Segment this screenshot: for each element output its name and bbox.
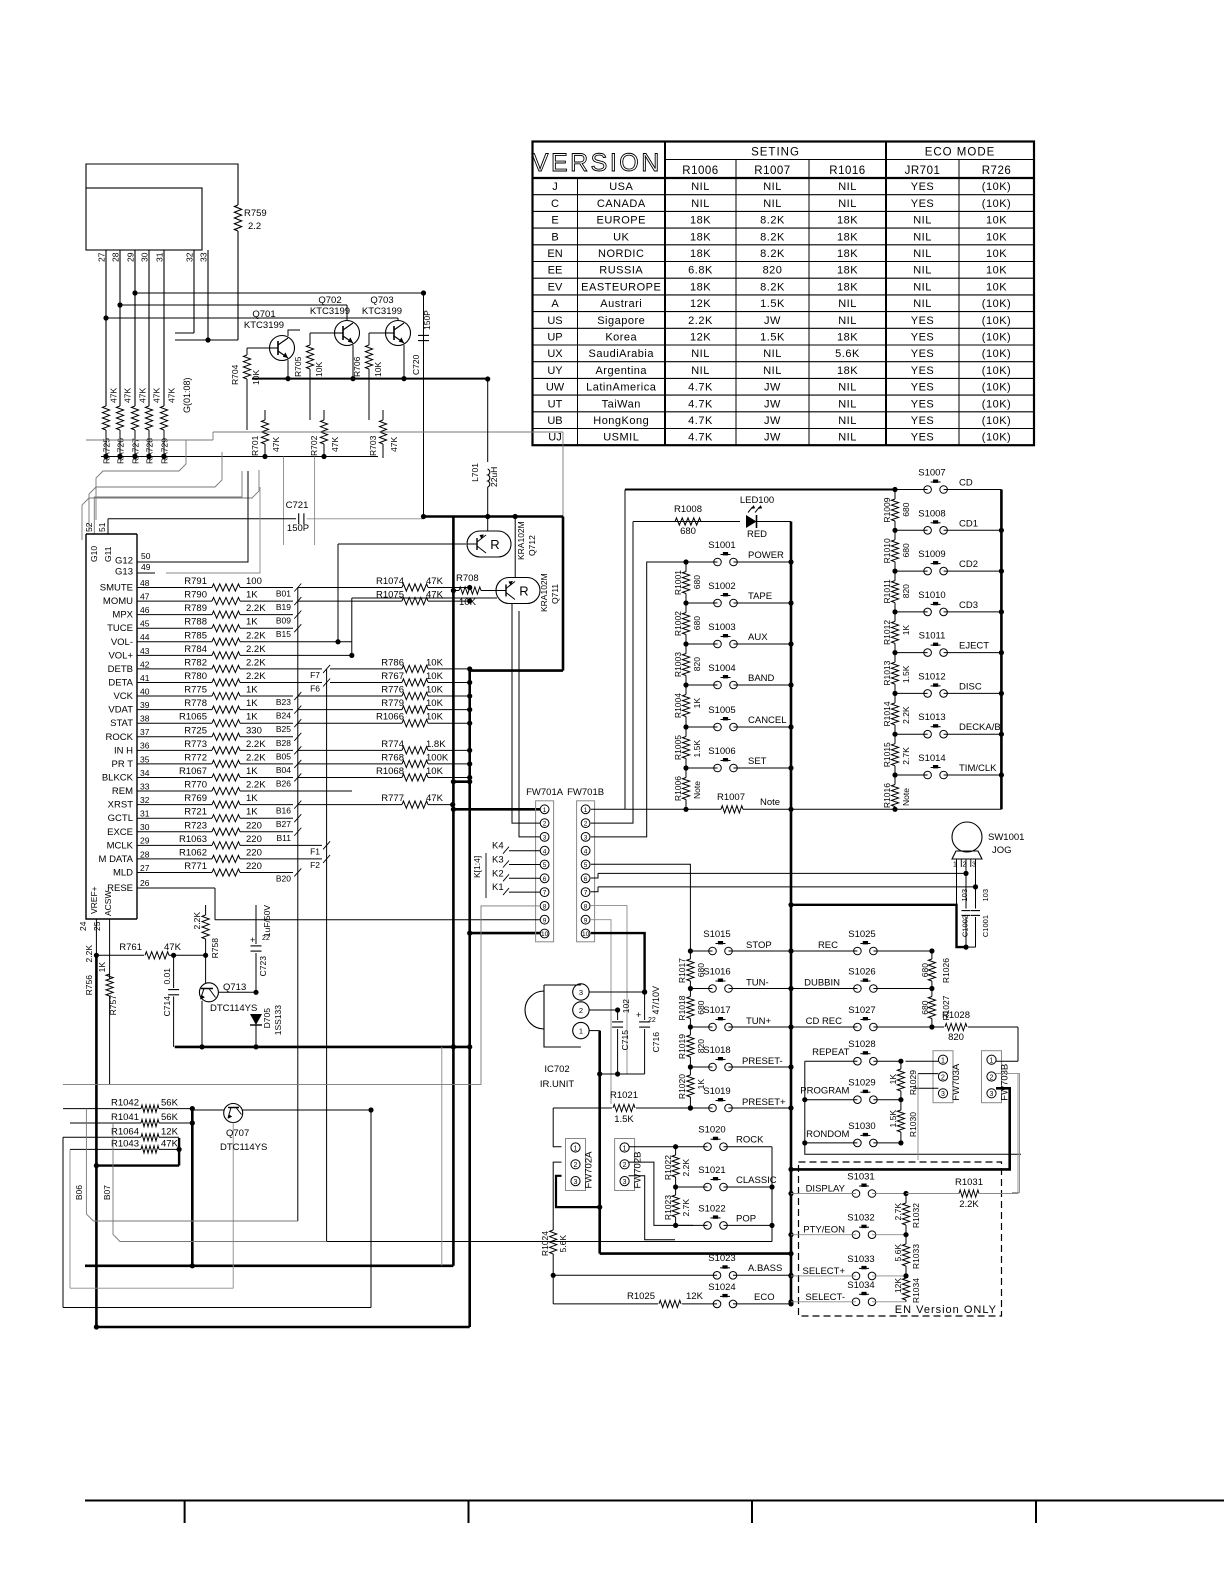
svg-text:1uF/50V: 1uF/50V: [262, 905, 272, 937]
svg-text:EUROPE: EUROPE: [597, 215, 646, 227]
svg-text:R1066: R1066: [376, 712, 404, 723]
svg-text:S1025: S1025: [848, 929, 875, 940]
svg-text:RA729: RA729: [160, 438, 170, 464]
svg-text:C721: C721: [286, 500, 309, 511]
svg-text:R708: R708: [456, 573, 479, 584]
svg-text:R759: R759: [244, 208, 267, 219]
svg-text:5: 5: [584, 862, 588, 869]
svg-text:12K: 12K: [690, 332, 711, 344]
svg-text:R1025: R1025: [627, 1291, 655, 1302]
svg-text:37: 37: [140, 727, 150, 737]
svg-text:NIL: NIL: [691, 181, 710, 193]
svg-text:36: 36: [140, 741, 150, 751]
svg-text:R1074: R1074: [376, 576, 404, 587]
svg-text:27: 27: [140, 863, 150, 873]
svg-text:30: 30: [140, 252, 150, 262]
svg-text:32: 32: [185, 252, 195, 262]
svg-text:7: 7: [584, 890, 588, 897]
svg-text:1.5K: 1.5K: [901, 665, 911, 683]
svg-text:SELECT+: SELECT+: [802, 1266, 845, 1277]
svg-text:820: 820: [696, 1039, 706, 1053]
svg-text:R725: R725: [184, 725, 207, 736]
svg-text:47K: 47K: [271, 437, 281, 452]
svg-text:R1013: R1013: [882, 660, 892, 685]
svg-text:B24: B24: [276, 711, 291, 721]
svg-text:5.6K: 5.6K: [835, 348, 860, 360]
svg-text:NIL: NIL: [691, 365, 710, 377]
svg-text:R1016: R1016: [882, 783, 892, 808]
svg-text:(10K): (10K): [982, 181, 1011, 193]
svg-text:48: 48: [140, 578, 150, 588]
svg-text:R789: R789: [184, 603, 207, 614]
svg-text:KTC3199: KTC3199: [362, 306, 402, 317]
svg-text:EN: EN: [547, 248, 562, 260]
svg-text:DUBBIN: DUBBIN: [804, 978, 840, 989]
svg-text:CD2: CD2: [959, 559, 978, 570]
svg-text:R774: R774: [381, 739, 404, 750]
svg-text:680: 680: [680, 526, 696, 537]
svg-text:2.2K: 2.2K: [246, 603, 266, 614]
svg-text:F7: F7: [310, 670, 320, 680]
svg-text:IR.UNIT: IR.UNIT: [540, 1079, 575, 1090]
svg-text:CD REC: CD REC: [806, 1016, 843, 1027]
svg-text:BAND: BAND: [748, 673, 775, 684]
svg-text:TAPE: TAPE: [748, 591, 772, 602]
svg-text:S1024: S1024: [708, 1282, 735, 1293]
svg-text:51: 51: [97, 522, 107, 532]
svg-text:28: 28: [140, 849, 150, 859]
svg-text:C720: C720: [411, 354, 421, 375]
svg-text:0.01: 0.01: [162, 968, 172, 985]
svg-text:YES: YES: [911, 365, 935, 377]
svg-text:YES: YES: [911, 332, 935, 344]
svg-text:SETING: SETING: [751, 147, 800, 159]
svg-text:B06: B06: [74, 1185, 84, 1200]
svg-text:B23: B23: [276, 697, 291, 707]
svg-text:NIL: NIL: [913, 265, 932, 277]
svg-text:C: C: [551, 198, 559, 210]
svg-text:NIL: NIL: [913, 231, 932, 243]
svg-text:47K: 47K: [167, 388, 177, 403]
svg-text:CANADA: CANADA: [597, 198, 646, 210]
svg-text:R791: R791: [184, 576, 207, 587]
svg-text:R1033: R1033: [911, 1244, 921, 1269]
svg-text:S1032: S1032: [847, 1213, 874, 1224]
svg-text:RESE: RESE: [107, 883, 133, 894]
svg-text:S1008: S1008: [918, 508, 945, 519]
svg-text:ACSW: ACSW: [103, 891, 113, 917]
svg-text:R1001: R1001: [673, 570, 683, 595]
svg-text:680: 680: [920, 963, 930, 977]
svg-text:1.5K: 1.5K: [760, 332, 785, 344]
svg-text:RA727: RA727: [131, 438, 141, 464]
svg-text:RONDOM: RONDOM: [806, 1129, 849, 1140]
svg-text:820: 820: [692, 657, 702, 671]
svg-text:FW703A: FW703A: [951, 1063, 962, 1101]
svg-text:NIL: NIL: [838, 181, 857, 193]
svg-text:100: 100: [246, 576, 262, 587]
svg-text:IN H: IN H: [114, 745, 133, 756]
svg-text:3: 3: [584, 835, 588, 842]
svg-text:10K: 10K: [986, 231, 1007, 243]
svg-text:(10K): (10K): [982, 315, 1011, 327]
svg-text:(10K): (10K): [982, 298, 1011, 310]
svg-text:R1007: R1007: [717, 792, 745, 803]
svg-text:S1022: S1022: [698, 1203, 725, 1214]
svg-text:R776: R776: [381, 685, 404, 696]
svg-text:R1007: R1007: [754, 165, 790, 177]
svg-text:RUSSIA: RUSSIA: [599, 265, 643, 277]
svg-text:R1028: R1028: [942, 1010, 970, 1021]
svg-text:33: 33: [140, 781, 150, 791]
svg-text:2: 2: [543, 821, 547, 828]
svg-text:2.7K: 2.7K: [901, 747, 911, 765]
svg-text:680: 680: [901, 543, 911, 557]
svg-text:1: 1: [574, 1145, 578, 1152]
svg-text:102: 102: [621, 999, 631, 1013]
svg-text:E: E: [551, 215, 558, 227]
svg-text:YES: YES: [911, 315, 935, 327]
svg-text:1: 1: [584, 807, 588, 814]
svg-text:18K: 18K: [837, 215, 858, 227]
svg-text:2.2K: 2.2K: [688, 315, 713, 327]
svg-text:R788: R788: [184, 617, 207, 628]
svg-text:S1005: S1005: [708, 705, 735, 716]
svg-text:B: B: [551, 231, 558, 243]
svg-text:BLKCK: BLKCK: [102, 772, 134, 783]
svg-text:Note: Note: [692, 781, 702, 799]
svg-text:41: 41: [140, 673, 150, 683]
svg-text:56K: 56K: [161, 1098, 179, 1109]
svg-text:40: 40: [140, 686, 150, 696]
svg-text:47K: 47K: [123, 388, 133, 403]
svg-text:8.2K: 8.2K: [760, 281, 785, 293]
svg-text:10K: 10K: [373, 362, 383, 377]
svg-text:10: 10: [541, 931, 549, 938]
svg-text:YES: YES: [911, 415, 935, 427]
svg-text:S1034: S1034: [847, 1280, 874, 1291]
svg-text:NIL: NIL: [838, 198, 857, 210]
svg-text:44: 44: [140, 632, 150, 642]
svg-text:1: 1: [990, 1058, 994, 1065]
svg-text:42: 42: [140, 659, 150, 669]
svg-text:5: 5: [543, 862, 547, 869]
svg-text:Q711: Q711: [550, 584, 560, 604]
svg-text:G13: G13: [115, 567, 133, 578]
svg-text:S1021: S1021: [698, 1165, 725, 1176]
svg-text:56K: 56K: [161, 1112, 179, 1123]
svg-text:R1002: R1002: [673, 611, 683, 636]
svg-text:18K: 18K: [837, 332, 858, 344]
svg-text:Note: Note: [901, 788, 911, 806]
svg-text:R1042: R1042: [111, 1098, 139, 1109]
svg-text:F6: F6: [310, 683, 320, 693]
svg-text:ROCK: ROCK: [106, 732, 134, 743]
svg-text:Note: Note: [760, 797, 780, 808]
svg-text:R782: R782: [184, 657, 207, 668]
svg-text:F2: F2: [310, 860, 320, 870]
svg-text:R786: R786: [381, 657, 404, 668]
svg-text:MPX: MPX: [112, 610, 133, 621]
svg-text:150P: 150P: [287, 523, 309, 534]
svg-text:EN Version ONLY: EN Version ONLY: [895, 1304, 997, 1316]
svg-text:UK: UK: [613, 231, 629, 243]
svg-text:POWER: POWER: [748, 550, 784, 561]
svg-text:R723: R723: [184, 820, 207, 831]
svg-text:3: 3: [543, 835, 547, 842]
svg-text:SaudiArabia: SaudiArabia: [589, 348, 655, 360]
svg-text:47K: 47K: [109, 388, 119, 403]
svg-text:1SS133: 1SS133: [273, 1005, 283, 1036]
svg-text:CANCEL: CANCEL: [748, 715, 787, 726]
svg-text:A.BASS: A.BASS: [748, 1263, 782, 1274]
svg-text:R704: R704: [230, 364, 240, 385]
svg-text:47K: 47K: [164, 942, 182, 953]
svg-text:(10K): (10K): [982, 382, 1011, 394]
svg-text:10K: 10K: [986, 215, 1007, 227]
svg-text:S1018: S1018: [703, 1045, 730, 1056]
svg-text:R779: R779: [381, 698, 404, 709]
svg-text:NIL: NIL: [913, 298, 932, 310]
svg-text:220: 220: [246, 847, 262, 858]
svg-text:PRESET+: PRESET+: [742, 1097, 786, 1108]
svg-text:PROGRAM: PROGRAM: [800, 1086, 849, 1097]
svg-text:2: 2: [574, 1162, 578, 1169]
svg-text:KTC3199: KTC3199: [244, 320, 284, 331]
svg-text:S1004: S1004: [708, 663, 735, 674]
svg-text:18K: 18K: [837, 248, 858, 260]
svg-text:YES: YES: [911, 198, 935, 210]
svg-text:2.2K: 2.2K: [84, 945, 94, 963]
svg-text:S1029: S1029: [848, 1078, 875, 1089]
svg-text:2: 2: [584, 821, 588, 828]
svg-text:R1030: R1030: [908, 1112, 918, 1137]
svg-text:9: 9: [584, 917, 588, 924]
svg-text:MLD: MLD: [113, 867, 133, 878]
svg-text:S1003: S1003: [708, 622, 735, 633]
svg-text:22: 22: [648, 1017, 656, 1024]
svg-text:680: 680: [692, 616, 702, 630]
svg-text:9: 9: [543, 917, 547, 924]
svg-text:R1018: R1018: [677, 995, 687, 1020]
svg-text:R1068: R1068: [376, 766, 404, 777]
svg-text:(10K): (10K): [982, 365, 1011, 377]
svg-text:820: 820: [901, 584, 911, 598]
svg-text:1K: 1K: [692, 698, 702, 709]
svg-text:L701: L701: [470, 463, 480, 482]
svg-text:R1024: R1024: [540, 1231, 550, 1256]
svg-text:100K: 100K: [426, 752, 449, 763]
svg-text:(10K): (10K): [982, 348, 1011, 360]
svg-text:DECKA/B: DECKA/B: [959, 722, 1001, 733]
svg-text:S1033: S1033: [847, 1254, 874, 1265]
svg-text:RA728: RA728: [145, 438, 155, 464]
svg-text:VDAT: VDAT: [108, 705, 133, 716]
svg-text:1.8K: 1.8K: [426, 739, 446, 750]
svg-text:POP: POP: [736, 1213, 756, 1224]
svg-text:8.2K: 8.2K: [760, 215, 785, 227]
svg-text:2.2: 2.2: [248, 221, 261, 232]
svg-text:EV: EV: [548, 281, 563, 293]
svg-text:10K: 10K: [251, 370, 261, 385]
svg-text:B20: B20: [276, 873, 291, 883]
svg-text:33: 33: [199, 252, 209, 262]
svg-text:18K: 18K: [837, 265, 858, 277]
svg-text:1K: 1K: [97, 962, 107, 973]
svg-text:38: 38: [140, 714, 150, 724]
svg-text:EASTEUROPE: EASTEUROPE: [581, 281, 661, 293]
svg-text:49: 49: [141, 562, 151, 572]
svg-text:CD3: CD3: [959, 600, 978, 611]
svg-text:4.7K: 4.7K: [688, 398, 713, 410]
svg-text:R: R: [519, 584, 528, 599]
svg-text:NIL: NIL: [838, 382, 857, 394]
svg-text:+: +: [250, 935, 255, 945]
svg-text:47K: 47K: [426, 576, 444, 587]
svg-text:NIL: NIL: [913, 215, 932, 227]
svg-text:REPEAT: REPEAT: [812, 1047, 850, 1058]
svg-text:+: +: [636, 1010, 641, 1020]
svg-text:1: 1: [941, 1058, 945, 1065]
svg-text:29: 29: [140, 836, 150, 846]
svg-text:S1009: S1009: [918, 549, 945, 560]
svg-text:Q703: Q703: [370, 295, 393, 306]
svg-text:R1034: R1034: [911, 1278, 921, 1303]
svg-text:103: 103: [981, 889, 990, 902]
svg-text:S1012: S1012: [918, 671, 945, 682]
svg-text:1K: 1K: [246, 793, 258, 804]
svg-text:R1004: R1004: [673, 693, 683, 718]
svg-text:B16: B16: [276, 806, 291, 816]
svg-text:1.5K: 1.5K: [760, 298, 785, 310]
svg-text:R773: R773: [184, 739, 207, 750]
svg-text:1K: 1K: [696, 1079, 706, 1090]
svg-text:47K: 47K: [389, 437, 399, 452]
svg-text:220: 220: [246, 820, 262, 831]
svg-text:S1013: S1013: [918, 712, 945, 723]
svg-text:R784: R784: [184, 644, 207, 655]
svg-text:K[1:4]: K[1:4]: [472, 856, 482, 878]
svg-text:18K: 18K: [837, 281, 858, 293]
svg-text:10K: 10K: [459, 597, 477, 608]
svg-text:18K: 18K: [837, 365, 858, 377]
svg-text:PR T: PR T: [112, 759, 134, 770]
svg-text:(10K): (10K): [982, 332, 1011, 344]
svg-text:B15: B15: [276, 629, 291, 639]
svg-text:2.7K: 2.7K: [681, 1199, 691, 1217]
svg-text:NIL: NIL: [913, 248, 932, 260]
svg-text:1K: 1K: [901, 625, 911, 636]
svg-text:Austrari: Austrari: [600, 298, 642, 310]
svg-text:1K: 1K: [246, 766, 258, 777]
svg-text:10K: 10K: [426, 712, 444, 723]
svg-text:103: 103: [960, 889, 969, 902]
svg-text:S1026: S1026: [848, 967, 875, 978]
svg-text:3: 3: [579, 988, 583, 997]
svg-text:VERSION: VERSION: [532, 149, 662, 177]
svg-text:TUCE: TUCE: [107, 623, 133, 634]
svg-text:R785: R785: [184, 630, 207, 641]
svg-text:S1006: S1006: [708, 746, 735, 757]
svg-text:10K: 10K: [986, 281, 1007, 293]
svg-text:R: R: [490, 537, 499, 552]
svg-text:6.8K: 6.8K: [688, 265, 713, 277]
svg-text:VREF+: VREF+: [89, 886, 99, 914]
svg-text:S1017: S1017: [703, 1005, 730, 1016]
svg-text:7: 7: [543, 890, 547, 897]
svg-text:R1062: R1062: [179, 847, 207, 858]
svg-text:330: 330: [246, 725, 262, 736]
svg-text:JW: JW: [764, 315, 781, 327]
svg-text:29: 29: [126, 252, 136, 262]
svg-text:TaiWan: TaiWan: [602, 398, 641, 410]
svg-text:K2: K2: [492, 868, 504, 879]
svg-text:(10K): (10K): [982, 398, 1011, 410]
svg-text:Q707: Q707: [226, 1128, 249, 1139]
svg-text:JW: JW: [764, 432, 781, 444]
svg-text:B28: B28: [276, 738, 291, 748]
svg-text:Sigapore: Sigapore: [597, 315, 645, 327]
svg-text:S1030: S1030: [848, 1121, 875, 1132]
svg-text:680: 680: [920, 1000, 930, 1014]
svg-text:C714: C714: [162, 996, 172, 1017]
svg-text:G10: G10: [89, 546, 99, 562]
svg-text:4.7K: 4.7K: [688, 415, 713, 427]
svg-text:4: 4: [543, 848, 547, 855]
svg-text:FW702B: FW702B: [633, 1152, 644, 1189]
svg-text:680: 680: [901, 502, 911, 516]
svg-text:IC702: IC702: [544, 1064, 569, 1075]
svg-text:ECO: ECO: [754, 1292, 775, 1303]
svg-text:1.5K: 1.5K: [888, 1110, 898, 1128]
svg-text:47K: 47K: [426, 793, 444, 804]
svg-text:10K: 10K: [426, 657, 444, 668]
svg-text:(10K): (10K): [982, 415, 1011, 427]
svg-text:220: 220: [246, 834, 262, 845]
svg-text:S1019: S1019: [703, 1086, 730, 1097]
svg-text:Q712: Q712: [527, 535, 537, 556]
svg-text:MCLK: MCLK: [107, 840, 134, 851]
svg-text:TUN+: TUN+: [746, 1016, 772, 1027]
svg-text:NIL: NIL: [838, 398, 857, 410]
svg-text:680: 680: [692, 575, 702, 589]
svg-text:R721: R721: [184, 807, 207, 818]
svg-text:1K: 1K: [246, 590, 258, 601]
svg-text:18K: 18K: [690, 215, 711, 227]
svg-text:R1012: R1012: [882, 620, 892, 645]
svg-text:2.2K: 2.2K: [246, 752, 266, 763]
svg-text:R1021: R1021: [610, 1090, 638, 1101]
svg-text:2.2K: 2.2K: [246, 739, 266, 750]
svg-text:R758: R758: [210, 938, 220, 959]
svg-text:R1065: R1065: [179, 712, 207, 723]
svg-text:47K: 47K: [138, 388, 148, 403]
svg-text:1K: 1K: [246, 698, 258, 709]
svg-text:R1031: R1031: [955, 1177, 983, 1188]
svg-text:R777: R777: [381, 793, 404, 804]
svg-text:UX: UX: [547, 348, 563, 360]
svg-text:USMIL: USMIL: [603, 432, 639, 444]
svg-text:R770: R770: [184, 780, 207, 791]
svg-text:J: J: [552, 181, 558, 193]
svg-text:TUN-: TUN-: [746, 978, 769, 989]
svg-text:VOL+: VOL+: [108, 650, 133, 661]
svg-text:R1003: R1003: [673, 652, 683, 677]
svg-text:B04: B04: [276, 765, 291, 775]
svg-text:DETB: DETB: [108, 664, 133, 675]
svg-text:R780: R780: [184, 671, 207, 682]
svg-text:39: 39: [140, 700, 150, 710]
